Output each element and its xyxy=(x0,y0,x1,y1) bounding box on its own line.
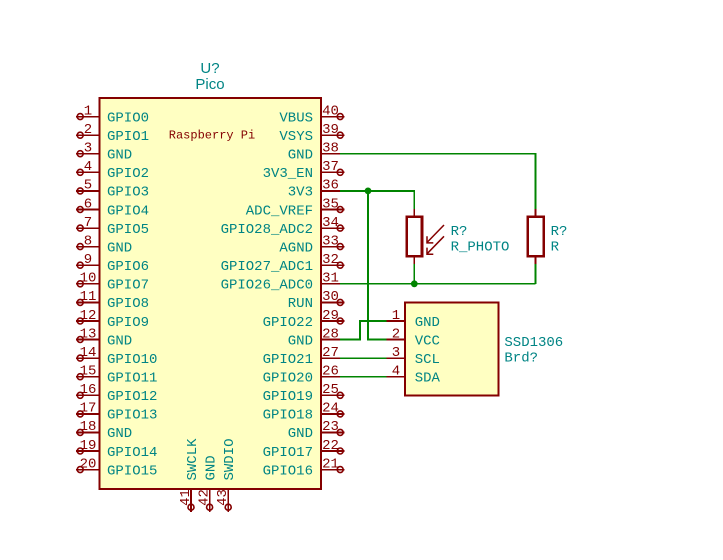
pin 23 GND xyxy=(288,419,345,442)
pin 3 GND xyxy=(76,141,132,164)
svg-text:GPIO1: GPIO1 xyxy=(107,129,149,145)
pin 29 GPIO22 xyxy=(263,308,345,331)
pin 22 GPIO17 xyxy=(263,438,345,461)
resistor R? R xyxy=(528,209,544,264)
pin 35 ADC_VREF xyxy=(246,196,345,219)
svg-text:GPIO28_ADC2: GPIO28_ADC2 xyxy=(221,222,313,238)
svg-text:GND: GND xyxy=(288,148,313,164)
svg-text:SWCLK: SWCLK xyxy=(185,438,201,481)
pin 5 GPIO3 xyxy=(76,178,149,201)
pin 19 GPIO14 xyxy=(76,438,157,461)
svg-text:3V3_EN: 3V3_EN xyxy=(263,166,313,182)
svg-text:1: 1 xyxy=(84,103,92,119)
svg-text:2: 2 xyxy=(84,122,92,138)
light arrows of R_PHOTO xyxy=(427,225,444,254)
svg-text:9: 9 xyxy=(84,252,92,268)
pin 38 GND xyxy=(288,141,340,164)
pin 43 SWDIO xyxy=(215,438,238,511)
wire GND pin28 to SSD1306 GND xyxy=(340,321,387,340)
svg-text:3: 3 xyxy=(84,141,92,157)
svg-text:GPIO11: GPIO11 xyxy=(107,371,157,387)
svg-text:5: 5 xyxy=(84,178,92,194)
junction 3V3 xyxy=(365,188,372,195)
svg-text:GPIO0: GPIO0 xyxy=(107,110,149,126)
svg-text:GPIO13: GPIO13 xyxy=(107,408,157,424)
svg-text:R?: R? xyxy=(451,224,468,240)
pin 25 GPIO19 xyxy=(263,382,345,405)
svg-text:GPIO6: GPIO6 xyxy=(107,259,149,275)
svg-text:GPIO9: GPIO9 xyxy=(107,315,149,331)
svg-text:27: 27 xyxy=(322,345,339,361)
svg-text:25: 25 xyxy=(322,382,339,398)
svg-text:42: 42 xyxy=(196,489,212,506)
svg-text:41: 41 xyxy=(178,489,194,506)
svg-text:GPIO27_ADC1: GPIO27_ADC1 xyxy=(221,259,313,275)
module pin 4 SDA xyxy=(387,364,441,387)
svg-text:20: 20 xyxy=(80,456,97,472)
wire GPIO21 pin27 to SSD1306 SCL xyxy=(340,357,387,359)
wire GPIO20 pin26 to SSD1306 SDA xyxy=(340,376,387,378)
pin 30 RUN xyxy=(288,289,345,312)
svg-text:24: 24 xyxy=(322,401,339,417)
svg-text:GND: GND xyxy=(288,333,313,349)
svg-text:GPIO12: GPIO12 xyxy=(107,389,157,405)
svg-text:GPIO4: GPIO4 xyxy=(107,203,149,219)
svg-text:GPIO16: GPIO16 xyxy=(263,463,313,479)
svg-text:19: 19 xyxy=(80,438,97,454)
svg-text:23: 23 xyxy=(322,419,339,435)
svg-text:22: 22 xyxy=(322,438,339,454)
svg-text:18: 18 xyxy=(80,419,97,435)
svg-text:GPIO2: GPIO2 xyxy=(107,166,149,182)
svg-text:U?: U? xyxy=(200,60,219,77)
pin 24 GPIO18 xyxy=(263,401,345,424)
pin 32 GPIO27_ADC1 xyxy=(221,252,345,275)
svg-text:17: 17 xyxy=(80,401,97,417)
svg-text:36: 36 xyxy=(322,178,339,194)
svg-text:33: 33 xyxy=(322,233,339,249)
svg-text:3V3: 3V3 xyxy=(288,185,313,201)
svg-text:GPIO21: GPIO21 xyxy=(263,352,313,368)
pin 8 GND xyxy=(76,233,132,256)
pin 2 GPIO1 xyxy=(76,122,149,145)
module pin 2 VCC xyxy=(387,326,440,349)
svg-text:SCL: SCL xyxy=(415,352,440,368)
svg-text:40: 40 xyxy=(322,103,339,119)
svg-text:GPIO14: GPIO14 xyxy=(107,445,157,461)
svg-text:GPIO7: GPIO7 xyxy=(107,278,149,294)
svg-text:7: 7 xyxy=(84,215,92,231)
pin 17 GPIO13 xyxy=(76,401,157,424)
svg-text:8: 8 xyxy=(84,233,92,249)
pin 33 AGND xyxy=(279,233,344,256)
svg-text:GPIO17: GPIO17 xyxy=(263,445,313,461)
svg-text:21: 21 xyxy=(322,456,339,472)
pin 1 GPIO0 xyxy=(76,103,149,126)
svg-text:GPIO20: GPIO20 xyxy=(263,371,313,387)
junction divider tap xyxy=(411,280,418,287)
wire GPIO26_ADC0 pin31 divider tap xyxy=(340,283,535,285)
svg-text:43: 43 xyxy=(215,489,231,506)
svg-text:AGND: AGND xyxy=(279,240,313,256)
svg-text:31: 31 xyxy=(322,271,339,287)
svg-text:Brd?: Brd? xyxy=(504,351,538,367)
svg-text:10: 10 xyxy=(80,271,97,287)
pin 20 GPIO15 xyxy=(76,456,157,479)
pin 28 GND xyxy=(288,326,340,349)
svg-text:30: 30 xyxy=(322,289,339,305)
svg-text:GPIO5: GPIO5 xyxy=(107,222,149,238)
wire R_PHOTO bottom to tap xyxy=(413,264,415,284)
svg-text:3: 3 xyxy=(392,345,400,361)
pin 14 GPIO10 xyxy=(76,345,157,368)
svg-text:37: 37 xyxy=(322,159,339,175)
svg-text:GPIO8: GPIO8 xyxy=(107,296,149,312)
svg-text:GND: GND xyxy=(288,426,313,442)
svg-text:ADC_VREF: ADC_VREF xyxy=(246,203,313,219)
svg-text:SDA: SDA xyxy=(415,371,441,387)
svg-text:GPIO15: GPIO15 xyxy=(107,463,157,479)
wire R bottom to tap xyxy=(534,264,536,284)
svg-text:GPIO22: GPIO22 xyxy=(263,315,313,331)
pin 34 GPIO28_ADC2 xyxy=(221,215,345,238)
svg-text:4: 4 xyxy=(392,364,400,380)
svg-text:35: 35 xyxy=(322,196,339,212)
svg-text:28: 28 xyxy=(322,326,339,342)
pin 15 GPIO11 xyxy=(76,364,157,387)
svg-text:11: 11 xyxy=(80,289,97,305)
svg-text:SWDIO: SWDIO xyxy=(222,438,238,480)
pin 6 GPIO4 xyxy=(76,196,149,219)
svg-text:6: 6 xyxy=(84,196,92,212)
pin 10 GPIO7 xyxy=(76,271,149,294)
svg-text:Raspberry Pi: Raspberry Pi xyxy=(169,129,255,143)
pin 26 GPIO20 xyxy=(263,364,341,387)
svg-text:2: 2 xyxy=(392,326,400,342)
svg-text:29: 29 xyxy=(322,308,339,324)
pin 31 GPIO26_ADC0 xyxy=(221,271,341,294)
svg-text:32: 32 xyxy=(322,252,339,268)
pin 40 VBUS xyxy=(279,103,344,126)
svg-text:GND: GND xyxy=(107,148,132,164)
svg-text:13: 13 xyxy=(80,326,97,342)
svg-text:GPIO26_ADC0: GPIO26_ADC0 xyxy=(221,278,313,294)
svg-text:GPIO18: GPIO18 xyxy=(263,408,313,424)
pin 9 GPIO6 xyxy=(76,252,149,275)
pin 21 GPIO16 xyxy=(263,456,345,479)
module pin 3 SCL xyxy=(387,345,440,368)
pin 27 GPIO21 xyxy=(263,345,341,368)
pin 41 SWCLK xyxy=(178,438,201,512)
wire GND pin38 to R top xyxy=(340,154,535,209)
pin 13 GND xyxy=(76,326,132,349)
svg-text:GPIO10: GPIO10 xyxy=(107,352,157,368)
pin 12 GPIO9 xyxy=(76,308,149,331)
svg-text:R?: R? xyxy=(551,224,568,240)
svg-text:GPIO3: GPIO3 xyxy=(107,185,149,201)
wire 3V3 pin36 to R_PHOTO top xyxy=(340,191,414,209)
svg-text:GND: GND xyxy=(107,333,132,349)
pin 36 3V3 xyxy=(288,178,340,201)
pin 39 VSYS xyxy=(279,122,344,145)
svg-text:R_PHOTO: R_PHOTO xyxy=(451,239,510,255)
svg-text:SSD1306: SSD1306 xyxy=(504,335,563,351)
svg-text:39: 39 xyxy=(322,122,339,138)
svg-text:VCC: VCC xyxy=(415,333,440,349)
wire 3V3 branch to SSD1306 VCC xyxy=(368,191,387,340)
pin 16 GPIO12 xyxy=(76,382,157,405)
svg-text:26: 26 xyxy=(322,364,339,380)
photoresistor R? R_PHOTO xyxy=(407,209,422,264)
svg-text:Pico: Pico xyxy=(195,76,224,93)
svg-text:R: R xyxy=(551,239,560,255)
display module Brd? SSD1306 body xyxy=(405,302,498,395)
svg-text:14: 14 xyxy=(80,345,97,361)
svg-text:GND: GND xyxy=(203,455,219,480)
svg-text:15: 15 xyxy=(80,364,97,380)
pin 42 GND xyxy=(196,455,219,512)
svg-text:GND: GND xyxy=(415,315,440,331)
svg-text:16: 16 xyxy=(80,382,97,398)
svg-text:VBUS: VBUS xyxy=(279,110,313,126)
pin 37 3V3_EN xyxy=(263,159,345,182)
svg-text:38: 38 xyxy=(322,141,339,157)
pin 18 GND xyxy=(76,419,132,442)
svg-text:34: 34 xyxy=(322,215,339,231)
mcu U? Pico body xyxy=(100,98,321,489)
svg-text:RUN: RUN xyxy=(288,296,313,312)
svg-text:GND: GND xyxy=(107,240,132,256)
svg-text:12: 12 xyxy=(80,308,97,324)
pin 4 GPIO2 xyxy=(76,159,149,182)
svg-text:VSYS: VSYS xyxy=(279,129,313,145)
pin 11 GPIO8 xyxy=(76,289,149,312)
svg-text:GND: GND xyxy=(107,426,132,442)
svg-text:GPIO19: GPIO19 xyxy=(263,389,313,405)
svg-text:4: 4 xyxy=(84,159,92,175)
module pin 1 GND xyxy=(387,308,440,331)
svg-text:1: 1 xyxy=(392,308,400,324)
pin 7 GPIO5 xyxy=(76,215,149,238)
